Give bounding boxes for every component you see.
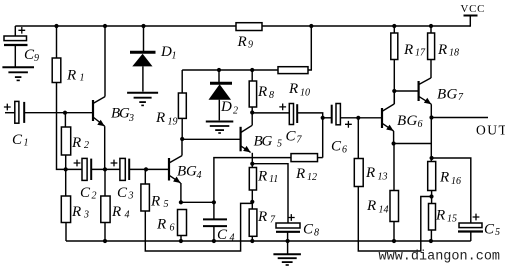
svg-text:8: 8 <box>314 228 319 239</box>
svg-text:R: R <box>155 110 165 126</box>
svg-text:19: 19 <box>168 117 178 128</box>
svg-text:10: 10 <box>300 88 310 99</box>
resistor R5 <box>141 184 169 211</box>
resistor R18 <box>428 33 459 60</box>
svg-text:OUT: OUT <box>476 123 505 138</box>
svg-text:14: 14 <box>379 205 389 216</box>
svg-text:C: C <box>331 139 342 155</box>
wire C9 bottom lead <box>14 46 16 67</box>
wire R19 bottom lead <box>181 118 183 139</box>
ground under C9 <box>2 67 34 80</box>
wire D2 top lead <box>218 70 220 82</box>
wire C8 ground lead <box>287 241 289 254</box>
svg-text:R: R <box>365 165 375 181</box>
ground under C8 <box>273 254 301 265</box>
wire BG6 emitter to output column <box>394 143 432 145</box>
svg-text:16: 16 <box>451 176 461 187</box>
node OUT tap <box>429 115 433 119</box>
resistor R4 <box>101 196 130 223</box>
wire BG3 collector to top rail <box>104 26 106 97</box>
svg-text:D: D <box>160 44 172 60</box>
svg-text:C: C <box>12 132 23 148</box>
svg-text:B: B <box>397 113 406 129</box>
wire BG4 emitter drop <box>180 183 182 202</box>
wire R13 feedback run <box>358 187 431 252</box>
wire R2 top lead <box>64 113 66 127</box>
svg-text:C: C <box>80 185 91 201</box>
wire C4 top lead <box>213 202 215 219</box>
wire C4 bottom lead <box>213 226 215 241</box>
wire BG5 emitter drop <box>251 153 253 164</box>
svg-text:18: 18 <box>449 48 459 59</box>
svg-text:C: C <box>484 222 495 238</box>
node R11/R7 junction <box>250 200 254 204</box>
capacitor C3 <box>111 158 134 201</box>
node C4 tap <box>212 200 216 204</box>
wire R4 top lead <box>104 169 106 196</box>
svg-text:B: B <box>437 87 446 103</box>
wire BG5 collector riser <box>251 113 253 126</box>
wire C5 branch <box>432 158 471 223</box>
transistor BG7 <box>419 78 432 104</box>
wire R14 bottom lead <box>393 222 395 242</box>
svg-text:R: R <box>435 208 445 224</box>
svg-text:G: G <box>186 164 197 180</box>
wire row169 seg3 to BG4 base <box>130 168 169 170</box>
wire R2 bottom lead <box>65 155 67 169</box>
svg-text:17: 17 <box>415 48 426 59</box>
node top rail / R18 <box>429 24 433 28</box>
svg-text:R: R <box>257 84 267 100</box>
wire R4 bottom lead <box>104 223 106 242</box>
wire C4 riser / R12 left lead <box>214 158 291 203</box>
node rail / R6 <box>179 239 183 243</box>
svg-text:8: 8 <box>269 90 274 101</box>
svg-text:5: 5 <box>164 199 169 210</box>
node top rail / R10 riser <box>309 24 313 28</box>
svg-text:2: 2 <box>92 191 97 202</box>
svg-text:4: 4 <box>230 233 235 244</box>
wire R19 top lead <box>181 70 183 93</box>
svg-text:2: 2 <box>233 106 238 117</box>
svg-text:R: R <box>111 204 121 220</box>
wire BG7 emitter column <box>430 104 432 161</box>
node R16/R15 junction <box>429 194 433 198</box>
resistor R16 <box>428 162 461 191</box>
wire R8 top lead <box>251 70 253 81</box>
resistor R7 <box>249 209 276 236</box>
resistor R1 <box>52 58 84 84</box>
node row70 / R8 <box>250 68 254 72</box>
wire R3 top lead <box>65 169 67 196</box>
svg-text:R: R <box>150 194 160 210</box>
svg-text:R: R <box>439 170 449 186</box>
wire R17 top lead <box>393 26 395 33</box>
capacitor C6 <box>331 104 352 156</box>
diode D1 <box>130 44 177 66</box>
wire C7 left <box>252 112 289 114</box>
svg-text:4: 4 <box>125 209 130 220</box>
wire D2 bottom lead <box>218 100 220 121</box>
wire BG6 collector riser <box>393 91 395 104</box>
node rail / R7 <box>250 239 254 243</box>
wire R5 top lead <box>144 169 146 184</box>
node R17 / BG7 base / BG6 collector <box>392 89 396 93</box>
wire R18 bottom lead <box>430 60 432 79</box>
node VCC terminal <box>461 3 486 16</box>
wire R13 top lead <box>357 118 359 159</box>
svg-text:1: 1 <box>24 138 29 149</box>
wire input lead <box>5 112 15 114</box>
node C6 tap <box>321 116 325 120</box>
svg-text:3: 3 <box>128 191 134 202</box>
svg-text:C: C <box>286 129 297 145</box>
svg-text:1: 1 <box>172 51 177 62</box>
wire bottom rail <box>66 240 471 242</box>
capacitor C5 <box>458 214 500 238</box>
svg-text:9: 9 <box>34 53 39 64</box>
svg-text:12: 12 <box>307 172 317 183</box>
node row70 / D2 <box>217 68 221 72</box>
wire row169 seg1 <box>66 168 82 170</box>
svg-text:R: R <box>66 68 76 84</box>
resistor R13 <box>354 159 387 187</box>
node top rail / D1 <box>141 24 145 28</box>
svg-text:4: 4 <box>197 170 202 181</box>
node BG5 collector / C7 <box>250 110 254 114</box>
wire R1 top lead <box>56 26 58 58</box>
svg-text:6: 6 <box>170 223 175 234</box>
wire top VCC rail left segment <box>15 25 236 27</box>
svg-text:www.diangon.com: www.diangon.com <box>379 250 501 265</box>
wire OUT <box>432 117 489 119</box>
node row169 R2/R3 <box>64 167 68 171</box>
wire C9 top lead <box>14 26 16 36</box>
node top rail / R17 <box>392 24 396 28</box>
svg-text:G: G <box>262 133 273 149</box>
svg-text:1: 1 <box>80 73 85 84</box>
svg-text:VCC: VCC <box>461 3 486 15</box>
capacitor C9 <box>4 27 39 64</box>
wire R17 bottom lead <box>393 60 395 104</box>
resistor R10 <box>278 67 310 99</box>
svg-text:R: R <box>295 166 305 182</box>
wire R16-R15 link <box>431 191 433 204</box>
wire top VCC rail right segment <box>262 25 470 27</box>
svg-text:R: R <box>71 135 81 151</box>
svg-text:6: 6 <box>342 145 347 156</box>
svg-text:R: R <box>288 81 298 97</box>
resistor R19 <box>155 93 186 128</box>
wire row169 seg2 <box>92 168 120 170</box>
wire C8 bottom lead <box>287 232 289 241</box>
svg-text:G: G <box>407 113 418 129</box>
node row169 BG3 emitter/R4 <box>103 167 107 171</box>
capacitor C1 <box>4 101 29 148</box>
wire D1 top lead <box>143 26 145 51</box>
wire R8 bottom lead <box>251 107 253 113</box>
node R16 top / C5 branch <box>430 156 434 160</box>
resistor R14 <box>366 191 399 222</box>
resistor R8 <box>249 81 274 107</box>
resistor R3 <box>61 196 89 223</box>
capacitor C7 <box>279 104 302 146</box>
wire BG4 collector riser <box>181 139 183 156</box>
resistor R11 <box>249 168 278 191</box>
wire R14 top lead <box>393 144 395 191</box>
node BG4 emitter / R6 <box>179 200 183 204</box>
wire R18 top lead <box>430 26 432 33</box>
svg-text:R: R <box>71 204 81 220</box>
svg-text:C: C <box>117 185 128 201</box>
transistor BG6 <box>382 104 394 131</box>
wire R7 bottom lead <box>251 236 253 241</box>
node BG6 emitter <box>392 141 396 145</box>
resistor R2 <box>61 127 89 155</box>
resistor R15 <box>429 204 458 231</box>
svg-text:11: 11 <box>269 174 278 185</box>
node rail / C8 ground <box>286 239 290 243</box>
resistor R12 <box>291 154 318 183</box>
svg-text:15: 15 <box>447 214 457 225</box>
svg-text:R: R <box>366 198 376 214</box>
capacitor C8 <box>276 214 319 238</box>
svg-text:5: 5 <box>495 227 500 238</box>
wire BG6 emitter drop <box>393 131 395 144</box>
svg-text:R: R <box>437 42 447 58</box>
svg-text:13: 13 <box>378 172 388 183</box>
wire C7 right / drop to R12 <box>298 113 323 158</box>
node rail / R15 <box>429 239 433 243</box>
wire C1 to BG3 base <box>25 112 93 114</box>
wire base link to BG5 <box>182 138 239 140</box>
wire D1 bottom lead <box>142 66 144 91</box>
svg-text:6: 6 <box>418 119 423 130</box>
wire VCC terminal riser <box>469 16 471 27</box>
node rail / R14 <box>392 239 396 243</box>
ground under D1 <box>127 93 158 106</box>
wire C5 bottom lead <box>470 232 472 242</box>
svg-text:3: 3 <box>83 209 89 220</box>
wire BG5 emitter to C8 <box>252 164 288 223</box>
svg-text:C: C <box>303 222 314 238</box>
wire BG7 base link <box>394 90 418 92</box>
wire R15 bottom lead <box>430 230 432 241</box>
transistor BG4 <box>169 156 182 183</box>
node R19/BG4 collector/BG5 base <box>180 137 184 141</box>
node rail / R4 <box>103 239 107 243</box>
svg-text:R: R <box>237 34 247 50</box>
svg-text:R: R <box>257 209 267 225</box>
transistor BG3 <box>93 97 105 127</box>
node C6 / R13 <box>356 116 360 120</box>
diode D2 <box>209 83 239 116</box>
wire row70 <box>182 69 278 71</box>
wire BG4 emitter to C4 <box>181 201 214 203</box>
resistor R6 <box>156 210 187 236</box>
svg-text:9: 9 <box>248 40 253 51</box>
transistor BG5 <box>241 125 253 152</box>
wire C6 left <box>323 117 332 119</box>
svg-text:R: R <box>403 42 413 58</box>
wire R11-R7 link <box>251 190 253 209</box>
node top rail / R1 <box>54 24 58 28</box>
svg-text:R: R <box>156 217 166 233</box>
wire R6 bottom lead <box>180 236 182 242</box>
wire R11 top lead <box>251 164 253 168</box>
node BG5 emitter / R11 / C8 <box>250 162 254 166</box>
wire R5 bottom feedback run <box>145 203 252 251</box>
resistor R9 <box>236 23 262 51</box>
svg-text:5: 5 <box>277 139 282 150</box>
svg-text:G: G <box>447 87 458 103</box>
svg-text:R: R <box>257 169 267 185</box>
node base wire / R2 <box>63 111 67 115</box>
svg-text:2: 2 <box>84 140 89 151</box>
ground under D2 <box>206 122 234 134</box>
wire R12 right lead <box>318 157 323 159</box>
svg-text:B: B <box>177 164 186 180</box>
capacitor C4 <box>203 219 235 243</box>
wire C6 to BG6 base <box>341 117 382 119</box>
svg-text:3: 3 <box>128 113 134 124</box>
svg-text:D: D <box>220 99 232 115</box>
node row169 R5 <box>144 167 148 171</box>
resistor R17 <box>391 33 426 60</box>
wire R3 bottom lead <box>65 223 67 242</box>
node top rail / BG3 collector <box>103 24 107 28</box>
node rail / C4 <box>212 239 216 243</box>
wire BG3 emitter down to row 169 <box>104 126 106 169</box>
capacitor C2 <box>74 158 97 201</box>
wire R1 bottom lead down to row 169 <box>57 83 66 170</box>
wire R10 right lead <box>308 26 311 70</box>
